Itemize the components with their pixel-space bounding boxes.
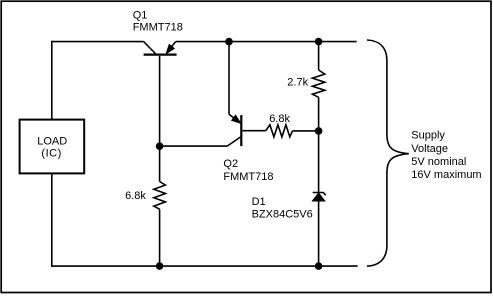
svg-text:Q2: Q2	[223, 158, 238, 170]
svg-text:(IC): (IC)	[41, 148, 61, 160]
svg-text:Q1: Q1	[133, 10, 148, 22]
svg-text:6.8k: 6.8k	[125, 190, 146, 202]
zener diode D1	[312, 193, 325, 202]
wire left vertical from load to bottom rail	[51, 173, 53, 267]
svg-text:FMMT718: FMMT718	[133, 21, 183, 33]
svg-text:LOAD: LOAD	[37, 135, 67, 147]
svg-text:Voltage: Voltage	[411, 143, 448, 155]
junction bottom rail right branch	[315, 262, 323, 270]
wire node to Q2 collector	[160, 145, 228, 147]
transistor Q2	[228, 114, 266, 146]
load block LOAD (IC)	[20, 120, 85, 174]
junction bottom rail left branch	[156, 262, 164, 270]
svg-text:FMMT718: FMMT718	[223, 171, 273, 183]
wire 2.7k to node	[318, 97, 320, 131]
svg-text:Supply: Supply	[411, 130, 445, 142]
transistor Q1	[144, 42, 177, 55]
svg-text:5V nominal: 5V nominal	[411, 156, 466, 168]
wire 6.8k to right branch node	[293, 130, 319, 132]
resistor 6.8k horizontal (Q2 base)	[266, 125, 293, 137]
svg-text:16V maximum: 16V maximum	[411, 169, 481, 181]
wire top rail right segment	[176, 41, 357, 43]
supply voltage brace	[367, 40, 409, 266]
wire top rail left segment	[52, 41, 144, 43]
wire node to zener D1	[318, 131, 320, 192]
junction on top rail at Q2 emitter	[225, 38, 233, 46]
annotation supply voltage	[411, 130, 481, 181]
svg-text:2.7k: 2.7k	[287, 76, 308, 88]
wire 6.8k left to bottom rail	[159, 209, 161, 266]
wire Q1 base down to node	[159, 56, 161, 146]
svg-text:D1: D1	[252, 196, 266, 208]
junction node at Q1 base / left branch	[156, 142, 164, 150]
resistor 2.7k	[312, 70, 324, 97]
wire bottom rail	[52, 265, 358, 267]
junction on top rail at right branch	[315, 38, 323, 46]
wire top rail to 2.7k	[318, 42, 320, 70]
wire Q2 emitter from top rail	[228, 42, 230, 115]
wire zener to bottom rail	[318, 201, 320, 266]
resistor 6.8k left	[154, 182, 166, 210]
wire left vertical from top rail to load	[51, 41, 53, 120]
wire node down to 6.8k left resistor	[159, 146, 161, 181]
svg-text:6.8k: 6.8k	[269, 113, 290, 125]
junction node right branch / Q2 base resistor	[315, 127, 323, 135]
svg-text:BZX84C5V6: BZX84C5V6	[252, 209, 313, 221]
